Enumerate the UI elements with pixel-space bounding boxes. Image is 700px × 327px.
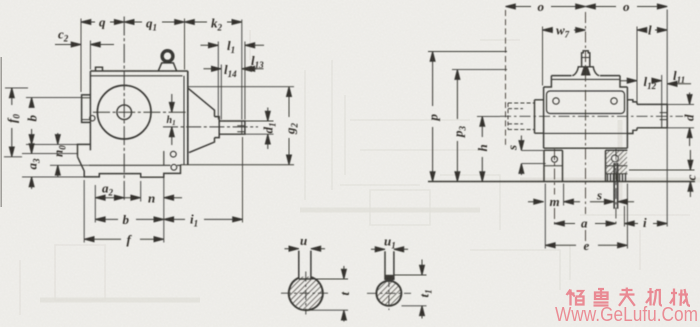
base top line	[89, 164, 181, 166]
dimension i1	[164, 217, 243, 222]
dimension g2	[188, 87, 294, 165]
extension x95.3 lower	[94, 185, 96, 223]
big bearing circle	[97, 85, 151, 139]
left view labels	[5, 15, 300, 248]
output shaft d	[637, 104, 667, 127]
body sides	[544, 87, 628, 148]
dimension h1	[169, 94, 174, 145]
output flange right	[627, 100, 637, 134]
panel hole right	[611, 98, 617, 104]
dimension s right	[590, 199, 634, 204]
input flange left	[535, 100, 544, 133]
dimension p	[428, 52, 507, 182]
dimension l14	[204, 66, 258, 71]
top plate (double line)	[551, 76, 620, 80]
section 1 circle (u,t)	[289, 251, 323, 311]
panel hole left	[553, 98, 559, 104]
right view labels	[300, 0, 699, 298]
extension line x81 (boss face)	[80, 19, 82, 93]
extension x242.5 lower	[242, 137, 244, 223]
extension x542.5	[542, 27, 544, 86]
dimension f	[84, 237, 164, 242]
dimension m	[528, 199, 580, 204]
output axis center line	[163, 126, 258, 128]
dimension p3	[452, 70, 507, 182]
dimension q1	[124, 20, 184, 25]
dimension u	[285, 246, 326, 251]
dimension o left	[506, 4, 586, 9]
base outline bottom	[78, 157, 181, 177]
extension e2 x221.3	[220, 65, 222, 120]
dimension b left	[26, 98, 82, 145]
dimension n	[124, 195, 182, 200]
extension e1 x218.3	[217, 42, 219, 120]
flange bolt hole upper	[170, 151, 176, 157]
dimension l	[637, 28, 667, 33]
section 2 circle (u1,t1)	[376, 251, 401, 306]
left foot	[544, 150, 563, 181]
left boss c2	[82, 95, 91, 123]
left foot bolt center line	[554, 149, 556, 227]
extension x84.2 lower	[83, 180, 85, 243]
small tab on housing top	[96, 67, 103, 71]
dimension c2	[55, 42, 114, 47]
watermark char xie	[670, 289, 690, 306]
dimension d1	[245, 108, 274, 150]
watermark char ge	[567, 290, 584, 306]
dimension a3	[22, 142, 84, 190]
input axis center line horizontal	[93, 111, 186, 113]
body joint line	[544, 132, 628, 134]
dimension h	[477, 116, 500, 181]
extension line x184.5 upper	[184, 19, 186, 70]
input shaft bore circle	[117, 105, 132, 120]
bearing panel rounded rect	[547, 91, 625, 114]
dimension a	[555, 221, 616, 226]
extension x661.7	[661, 75, 663, 104]
bottom shelf line right	[181, 164, 295, 166]
dimension w7	[543, 28, 586, 33]
right flange edge	[163, 151, 165, 165]
watermark char ji	[646, 288, 662, 306]
dimension t	[307, 266, 349, 322]
section 1 center lines	[281, 292, 331, 294]
shaft collar	[215, 117, 220, 138]
bell dark fill	[581, 68, 591, 76]
extension x563.6 lower	[563, 184, 565, 206]
dimension o right	[586, 4, 668, 9]
output collar	[636, 102, 638, 130]
flange bolt hole lower	[171, 164, 177, 170]
body bottom	[544, 147, 628, 149]
dimension u1	[371, 247, 408, 252]
dashed extension x505.5	[505, 10, 507, 148]
extension e4 x244.9	[244, 42, 246, 120]
bearing cone top slant	[188, 88, 215, 116]
right view horizontal center line	[500, 115, 683, 117]
dimension i	[624, 221, 667, 226]
bearing cone bottom slant	[189, 138, 215, 153]
scan border artifact left	[0, 57, 2, 207]
anchor bolt shank	[614, 163, 617, 209]
left wall	[89, 71, 91, 150]
dimension c	[629, 150, 695, 197]
bottom-left ledge	[78, 144, 91, 156]
extension x637	[636, 27, 638, 105]
ground base line	[428, 181, 695, 183]
watermark text	[555, 288, 698, 327]
extension x624.4 lower	[623, 206, 625, 227]
dimension q	[81, 20, 124, 25]
top corner steps	[544, 76, 628, 87]
right foot bolt center line	[615, 149, 617, 227]
section 2 center lines	[367, 292, 411, 294]
output shaft d1	[219, 121, 245, 134]
dimension e	[545, 243, 627, 248]
watermark char lu	[594, 289, 609, 306]
extension x140.7 lower	[140, 181, 142, 202]
extension x627.4 lower	[626, 184, 628, 249]
dimension n0	[50, 133, 89, 177]
dimension l12	[620, 78, 662, 83]
dimension k2	[185, 20, 242, 25]
right wall (double)	[184, 71, 188, 165]
bell housing mound	[572, 67, 599, 76]
dimension l1	[201, 43, 265, 48]
bolt hole left wall	[90, 116, 95, 121]
dimension d	[667, 93, 694, 147]
extension e3 x241.8	[241, 20, 243, 120]
extension x545.3 lower	[544, 184, 546, 249]
eyebolt ring	[158, 51, 176, 71]
right foot sectioned	[606, 150, 628, 181]
input axis center line vertical	[123, 17, 125, 201]
right view vertical center line	[585, 12, 587, 243]
watermark char fu	[619, 288, 635, 306]
extension x163.8 lower	[163, 177, 165, 242]
dimension t1	[394, 260, 427, 319]
hidden input cap (dashed)	[508, 103, 535, 130]
dimension a2	[95, 195, 124, 200]
extension line x90.4 upper	[89, 41, 91, 70]
vertical shaft spigot	[582, 51, 590, 67]
dimension l11	[667, 81, 691, 86]
dimension l13	[245, 66, 264, 71]
extension x667.2	[666, 10, 668, 227]
housing top edge (double line)	[90, 71, 187, 76]
dimension f0	[4, 88, 28, 157]
dimension s left	[519, 136, 546, 176]
dimension b bottom	[95, 217, 164, 222]
